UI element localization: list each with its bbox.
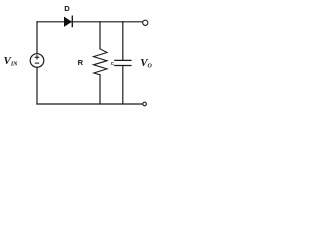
capacitor C top plate: [114, 59, 131, 61]
wire source bottom to bottom rail: [36, 67, 38, 104]
svg-text:C: C: [111, 61, 115, 66]
wire bottom rail: [37, 103, 143, 105]
svg-text:VIN: VIN: [4, 55, 19, 68]
output terminal top: [143, 20, 148, 25]
output terminal bottom: [143, 102, 147, 106]
svg-text:R: R: [78, 58, 84, 67]
capacitor C bottom plate: [114, 65, 131, 67]
wire resistor branch bottom: [99, 75, 101, 104]
resistor R zigzag: [94, 49, 108, 75]
wire capacitor branch top: [122, 22, 124, 60]
svg-text:VO: VO: [140, 57, 152, 70]
voltage source minus sign: [35, 62, 39, 64]
wire capacitor branch bottom: [122, 66, 124, 104]
voltage source plus sign: [35, 55, 40, 59]
diode D (anode triangle): [64, 17, 71, 26]
wire top rail: [37, 21, 143, 23]
voltage source VIN circle: [30, 54, 44, 68]
svg-text:D: D: [64, 4, 70, 13]
wire left vertical (source branch): [36, 22, 38, 54]
wire resistor branch top: [99, 22, 101, 49]
diode D cathode bar: [71, 16, 73, 28]
